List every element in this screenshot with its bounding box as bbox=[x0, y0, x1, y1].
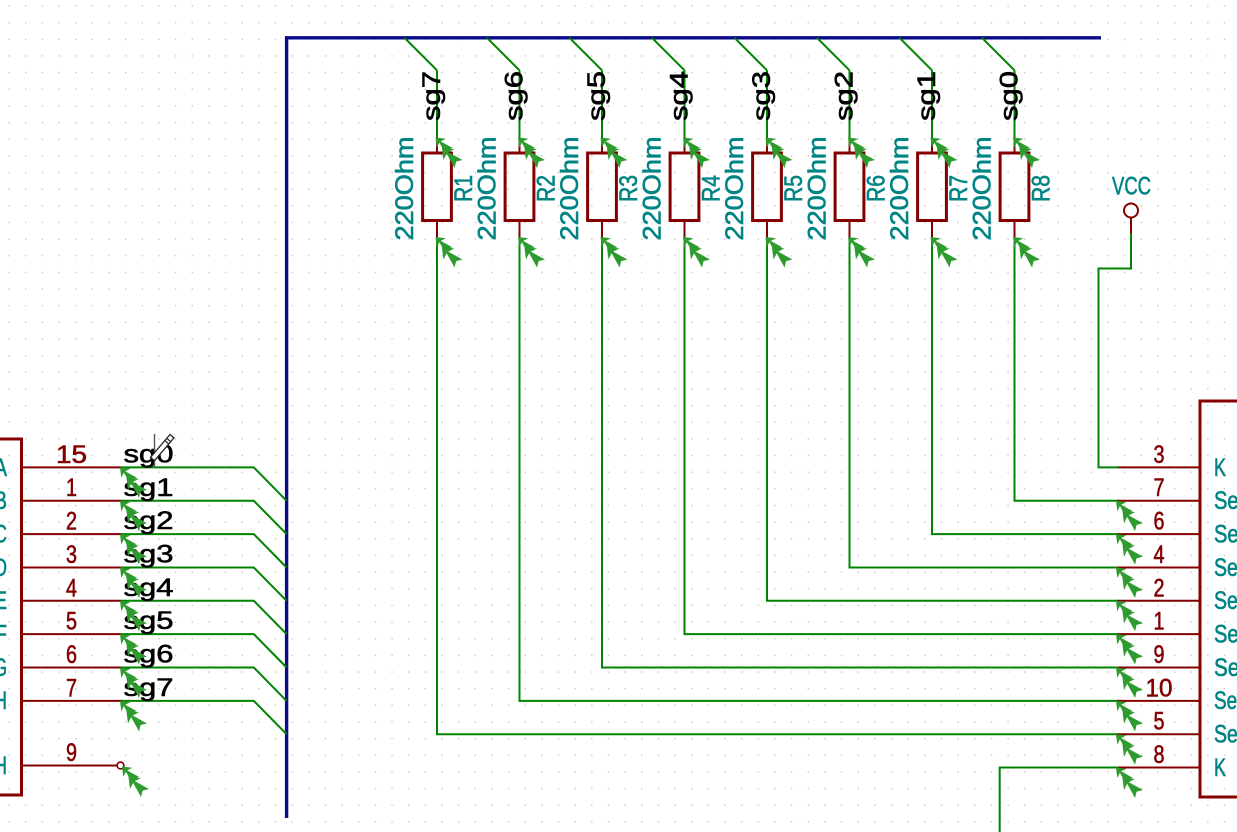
left pin 2 bbox=[22, 533, 122, 535]
ERC marker pair at left pin 9 bbox=[122, 767, 149, 797]
wire sg5 to R3 bbox=[601, 70, 603, 137]
wire sg5 to bus bbox=[122, 634, 287, 667]
svg-text:7: 7 bbox=[1154, 474, 1165, 502]
resistor R5 body bbox=[753, 153, 782, 221]
wire pin 8 (K) down to edge bbox=[1000, 768, 1119, 832]
ERC marker pair at right pin 9 bbox=[1116, 668, 1143, 698]
ERC marker pair at left pin 5 bbox=[120, 634, 147, 664]
svg-text:K: K bbox=[1214, 754, 1226, 782]
svg-text:sg7: sg7 bbox=[418, 71, 446, 121]
bus entry sg7 bbox=[405, 38, 438, 71]
left pin 4 bbox=[22, 600, 122, 602]
ERC marker pair at R2 bottom bbox=[518, 237, 545, 267]
svg-text:C: C bbox=[0, 521, 7, 549]
resistor R6 pin stubs bbox=[849, 138, 851, 238]
wire sg4 to R4 bbox=[684, 70, 686, 137]
resistor R8 body bbox=[1000, 153, 1029, 221]
wire sg3 to R5 bbox=[766, 70, 768, 137]
left pin 6 bbox=[22, 667, 122, 669]
wire R8 to right pin bbox=[1015, 237, 1119, 501]
svg-text:sg0: sg0 bbox=[996, 71, 1024, 121]
ERC marker pair at right pin 6 bbox=[1116, 534, 1143, 564]
wire R1 to right pin bbox=[437, 237, 1119, 734]
svg-text:2: 2 bbox=[66, 508, 77, 536]
left pin 3 bbox=[22, 567, 122, 569]
ERC marker pair at left pin 7 bbox=[120, 701, 147, 731]
svg-text:sg1: sg1 bbox=[913, 71, 941, 121]
right pin 6 bbox=[1118, 533, 1201, 535]
svg-text:5: 5 bbox=[1154, 708, 1165, 736]
wire sg7 to R1 bbox=[436, 70, 438, 137]
ERC marker pair at right pin 1 bbox=[1116, 634, 1143, 664]
svg-text:SeC: SeC bbox=[1214, 554, 1237, 582]
ERC marker pair at R7 bottom bbox=[931, 237, 958, 267]
resistor R7 body bbox=[918, 153, 947, 221]
right pin 8 bbox=[1118, 767, 1201, 769]
svg-text:SeG: SeG bbox=[1214, 687, 1237, 715]
svg-text:5: 5 bbox=[66, 608, 77, 636]
svg-text:B: B bbox=[0, 487, 7, 515]
svg-text:220Ohm: 220Ohm bbox=[721, 137, 749, 241]
svg-text:3: 3 bbox=[66, 541, 77, 569]
svg-text:G: G bbox=[0, 654, 7, 682]
right component box bbox=[1200, 401, 1237, 797]
svg-text:sg3: sg3 bbox=[748, 71, 776, 121]
left component box bbox=[0, 439, 22, 795]
right pin 10 bbox=[1118, 700, 1201, 702]
left pin 5 bbox=[22, 633, 122, 635]
bus (horizontal top + vertical left) bbox=[287, 38, 1101, 818]
bus entry sg1 bbox=[900, 38, 933, 71]
right pin 2 bbox=[1118, 600, 1201, 602]
wire sg2 to R6 bbox=[849, 70, 851, 137]
ERC marker pair at R3 bottom bbox=[601, 237, 628, 267]
resistor R6 body bbox=[835, 153, 864, 221]
svg-text:D: D bbox=[0, 554, 7, 582]
svg-text:9: 9 bbox=[1154, 641, 1165, 669]
bus entry sg2 bbox=[817, 38, 850, 71]
right pin 7 bbox=[1118, 500, 1201, 502]
ERC marker pair at right pin 8 bbox=[1116, 768, 1143, 798]
resistor R3 body bbox=[588, 153, 617, 221]
svg-text:8: 8 bbox=[1154, 741, 1165, 769]
wire sg0 to R8 bbox=[1014, 70, 1016, 137]
ERC marker pair at left pin 1 bbox=[120, 501, 147, 531]
ERC marker pair at right pin 4 bbox=[1116, 568, 1143, 598]
wire sg1 to bus bbox=[122, 501, 287, 534]
wire sg4 to bus bbox=[122, 601, 287, 634]
svg-text:K: K bbox=[1214, 454, 1226, 482]
bus entry sg4 bbox=[652, 38, 685, 71]
wire sg6 to R2 bbox=[519, 70, 521, 137]
ERC marker pair at R6 top bbox=[848, 138, 875, 168]
svg-text:6: 6 bbox=[1154, 508, 1165, 536]
mouse cursor (pencil + hairline) bbox=[151, 434, 174, 468]
svg-text:9: 9 bbox=[66, 739, 77, 767]
resistor R2 pin stubs bbox=[519, 138, 521, 238]
left pin 9 open-end circle bbox=[117, 762, 124, 769]
resistor R4 pin stubs bbox=[684, 138, 686, 238]
svg-text:6: 6 bbox=[66, 641, 77, 669]
resistor R3 pin stubs bbox=[601, 138, 603, 238]
ERC marker pair at R1 top bbox=[436, 138, 463, 168]
wire R6 to right pin bbox=[850, 237, 1119, 568]
svg-text:H: H bbox=[0, 687, 7, 715]
resistor R8 pin stubs bbox=[1014, 138, 1016, 238]
svg-text:220Ohm: 220Ohm bbox=[556, 137, 584, 241]
ERC marker pair at left pin 3 bbox=[120, 568, 147, 598]
ERC marker pair at R1 bottom bbox=[436, 237, 463, 267]
ERC marker pair at right pin 2 bbox=[1116, 601, 1143, 631]
svg-text:220Ohm: 220Ohm bbox=[804, 137, 832, 241]
wire sg6 to bus bbox=[122, 668, 287, 701]
resistor R1 body bbox=[423, 153, 452, 221]
svg-text:1: 1 bbox=[66, 474, 77, 502]
ERC marker pair at left pin 2 bbox=[120, 534, 147, 564]
right pin 1 bbox=[1118, 633, 1201, 635]
svg-text:sg6: sg6 bbox=[501, 71, 529, 121]
svg-text:4: 4 bbox=[1154, 541, 1165, 569]
svg-text:10: 10 bbox=[1146, 674, 1173, 702]
svg-text:2: 2 bbox=[1154, 574, 1165, 602]
svg-text:sg4: sg4 bbox=[666, 71, 694, 121]
svg-text:sg5: sg5 bbox=[583, 71, 611, 121]
resistor R7 pin stubs bbox=[931, 138, 933, 238]
bus entry sg5 bbox=[570, 38, 603, 71]
right pin 4 bbox=[1118, 567, 1201, 569]
ERC marker pair at right pin 7 bbox=[1116, 501, 1143, 531]
svg-text:F: F bbox=[0, 621, 7, 649]
wire R2 to right pin bbox=[520, 237, 1119, 701]
right pin 9 bbox=[1118, 667, 1201, 669]
svg-text:VCC: VCC bbox=[1112, 173, 1151, 201]
svg-text:4: 4 bbox=[66, 574, 77, 602]
left pin 15 bbox=[22, 466, 122, 468]
wire sg1 to R7 bbox=[931, 70, 933, 137]
bus entry sg3 bbox=[735, 38, 768, 71]
svg-text:A: A bbox=[0, 454, 7, 482]
svg-text:3: 3 bbox=[1154, 441, 1165, 469]
svg-text:15: 15 bbox=[56, 441, 87, 469]
wire R7 to right pin bbox=[932, 237, 1119, 534]
ERC marker pair at R2 top bbox=[518, 138, 545, 168]
svg-text:7: 7 bbox=[66, 674, 77, 702]
svg-text:220Ohm: 220Ohm bbox=[639, 137, 667, 241]
left pin 1 bbox=[22, 500, 122, 502]
ERC marker pair at R5 top bbox=[766, 138, 793, 168]
ERC marker pair at R7 top bbox=[931, 138, 958, 168]
svg-text:H: H bbox=[0, 752, 7, 780]
wire sg2 to bus bbox=[122, 534, 287, 567]
wire R3 to right pin bbox=[602, 237, 1119, 668]
wire VCC to pin 3 bbox=[1099, 234, 1132, 468]
ERC marker pair at R6 bottom bbox=[848, 237, 875, 267]
ERC marker pair at R4 bottom bbox=[683, 237, 710, 267]
wire sg7 to bus bbox=[122, 701, 287, 734]
svg-text:sg2: sg2 bbox=[831, 71, 859, 121]
svg-text:SeF: SeF bbox=[1214, 654, 1237, 682]
svg-text:SeA: SeA bbox=[1214, 487, 1237, 515]
ERC marker pair at R5 bottom bbox=[766, 237, 793, 267]
svg-text:220Ohm: 220Ohm bbox=[969, 137, 997, 241]
ERC marker pair at left pin 15 bbox=[120, 467, 147, 497]
ERC marker pair at left pin 4 bbox=[120, 601, 147, 631]
svg-text:220Ohm: 220Ohm bbox=[886, 137, 914, 241]
ERC marker pair at R8 top bbox=[1013, 138, 1040, 168]
left pin 7 bbox=[22, 700, 122, 702]
wire R4 to right pin bbox=[685, 237, 1119, 634]
right pin 3 bbox=[1118, 466, 1201, 468]
wire sg0 to bus bbox=[122, 467, 287, 500]
ERC marker pair at R3 top bbox=[601, 138, 628, 168]
ERC marker pair at right pin 10 bbox=[1116, 701, 1143, 731]
svg-text:SeB: SeB bbox=[1214, 521, 1237, 549]
resistor R2 body bbox=[505, 153, 534, 221]
svg-text:220Ohm: 220Ohm bbox=[474, 137, 502, 241]
resistor R5 pin stubs bbox=[766, 138, 768, 238]
ERC marker pair at R4 top bbox=[683, 138, 710, 168]
ERC marker pair at R8 bottom bbox=[1013, 237, 1040, 267]
resistor R4 body bbox=[670, 153, 699, 221]
svg-text:E: E bbox=[0, 587, 7, 615]
svg-text:SeE: SeE bbox=[1214, 621, 1237, 649]
wire sg3 to bus bbox=[122, 568, 287, 601]
svg-text:220Ohm: 220Ohm bbox=[391, 137, 419, 241]
left pin 9 bbox=[22, 765, 118, 767]
wire R5 to right pin bbox=[767, 237, 1119, 601]
right pin 5 bbox=[1118, 733, 1201, 735]
svg-text:SeD: SeD bbox=[1214, 587, 1237, 615]
bus entry sg0 bbox=[982, 38, 1015, 71]
svg-text:1: 1 bbox=[1154, 608, 1165, 636]
ERC marker pair at left pin 6 bbox=[120, 668, 147, 698]
resistor R1 pin stubs bbox=[436, 138, 438, 238]
ERC marker pair at right pin 5 bbox=[1116, 734, 1143, 764]
svg-text:SeH: SeH bbox=[1214, 721, 1237, 749]
bus entry sg6 bbox=[487, 38, 520, 71]
svg-text:R8: R8 bbox=[1028, 175, 1056, 202]
